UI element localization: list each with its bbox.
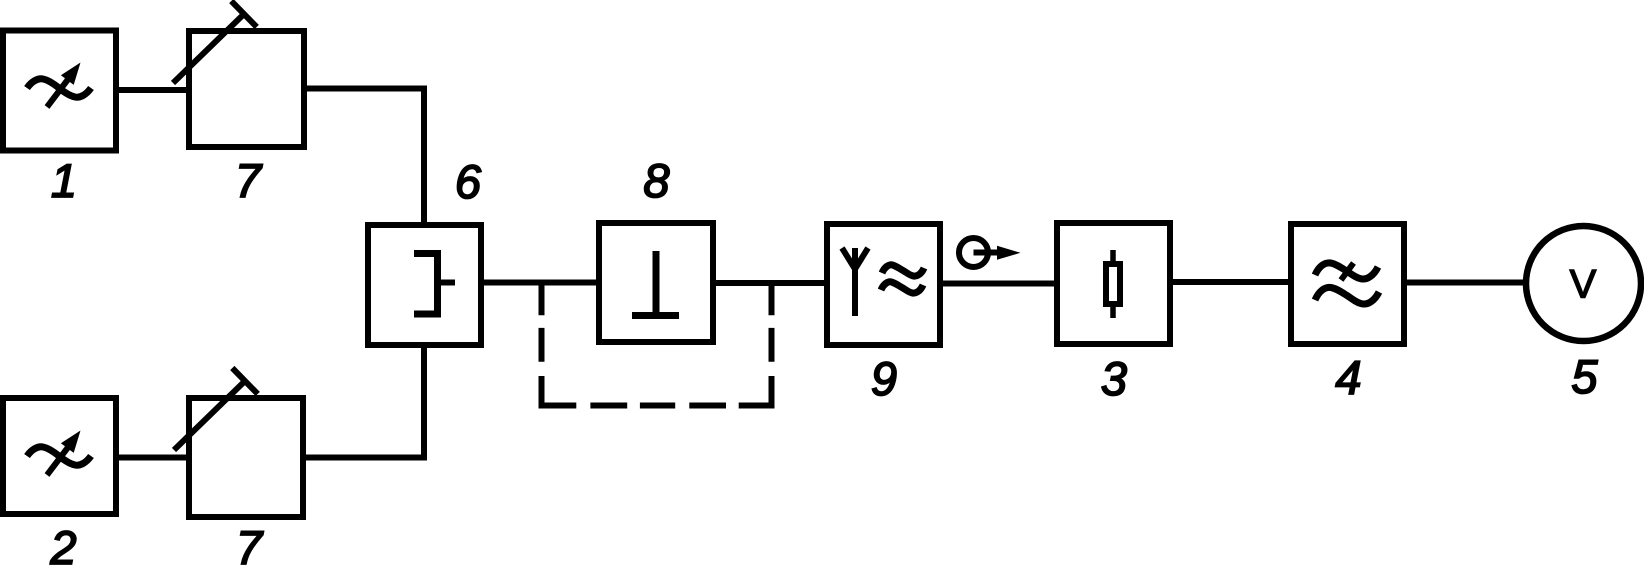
- wire box2 to box7 bottom: [116, 455, 190, 461]
- combiner 6 bracket vertical: [434, 250, 441, 318]
- filter 4 wave bottom: [1315, 287, 1379, 304]
- svg-text:5: 5: [1571, 350, 1598, 403]
- svg-text:7: 7: [236, 521, 264, 566]
- wire combiner 6 to block 8: [481, 280, 599, 286]
- svg-text:V: V: [1570, 263, 1597, 307]
- dashed bypass box : right vertical dashes: [769, 285, 775, 406]
- svg-text:9: 9: [871, 352, 897, 405]
- attenuator block 7 (bottom): [189, 398, 303, 517]
- wire box1 to box7 top: [116, 87, 190, 93]
- block 9: [827, 224, 940, 345]
- filter 4 wave top: [1315, 263, 1378, 279]
- generator 2 arrow head: [61, 431, 81, 453]
- block 9 wave top: [882, 265, 924, 276]
- attenuator 7 bottom crossbar: [232, 368, 257, 394]
- attenuator 7 top crossbar: [231, 1, 256, 27]
- wire block 9 to block 3: [940, 281, 1057, 287]
- generator block 1: [3, 31, 116, 151]
- block 3 resistor body: [1106, 264, 1120, 304]
- wire block 8 to block 9: [713, 280, 827, 286]
- dashed bypass box : bottom dashes: [539, 403, 775, 409]
- svg-text:8: 8: [643, 154, 669, 207]
- block 3 resistor bottom lead: [1110, 307, 1116, 318]
- dashed bypass box around block 8 : left vertical dashes: [539, 285, 545, 406]
- block 3: [1057, 223, 1170, 344]
- generator 1 arrow head: [61, 63, 81, 85]
- wire block 3 to block 4: [1170, 279, 1291, 285]
- output port arrow head: [997, 246, 1021, 260]
- wire box7 bottom to combiner 6: [303, 345, 424, 458]
- svg-text:2: 2: [49, 521, 76, 566]
- wire box7 top to combiner 6: [304, 89, 424, 225]
- output port circle: [959, 238, 988, 267]
- svg-text:1: 1: [51, 154, 77, 207]
- combiner 6 output tick: [441, 280, 455, 286]
- generator 1 sine symbol: [27, 79, 91, 97]
- generator 2 sine symbol: [27, 447, 91, 465]
- attenuator block 7 (top): [189, 31, 304, 147]
- output port arrow shaft: [974, 250, 1001, 256]
- attenuator 7 top diagonal: [173, 14, 244, 83]
- block 8: [599, 223, 713, 342]
- block 3 resistor top lead: [1110, 250, 1116, 261]
- combiner 6 bracket top bar: [414, 250, 438, 257]
- voltmeter circle 5: [1526, 226, 1641, 341]
- generator 1 arrow shaft: [47, 78, 69, 107]
- block 8 ground bar: [632, 312, 679, 319]
- combiner block 6: [368, 225, 481, 345]
- block 9 antenna right branch: [855, 248, 868, 269]
- block 9 antenna mast: [852, 248, 858, 316]
- filter block 4: [1291, 224, 1404, 344]
- svg-text:6: 6: [455, 155, 482, 208]
- block 9 antenna left branch: [842, 248, 855, 269]
- wire block 4 to voltmeter 5: [1404, 280, 1526, 286]
- attenuator 7 bottom diagonal: [174, 381, 245, 450]
- block 8 ground vertical: [653, 251, 660, 313]
- svg-text:3: 3: [1101, 352, 1127, 405]
- generator 2 arrow shaft: [47, 446, 69, 475]
- generator block 2: [3, 398, 116, 514]
- svg-text:4: 4: [1335, 351, 1361, 404]
- svg-text:7: 7: [235, 154, 263, 207]
- filter 4 strike: [1341, 263, 1354, 280]
- block 9 wave bottom: [881, 282, 923, 293]
- combiner 6 bracket bottom bar: [414, 311, 438, 318]
